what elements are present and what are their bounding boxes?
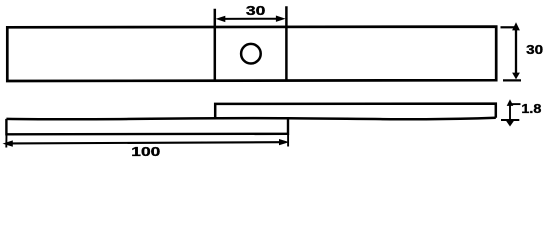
right arrowhead of top 30 dimension [276, 16, 286, 22]
down arrowhead of 1.8 dimension [505, 120, 514, 127]
svg-text:30: 30 [526, 42, 543, 57]
hole (circle) [241, 44, 261, 64]
svg-text:100: 100 [131, 144, 160, 159]
svg-text:1.8: 1.8 [521, 101, 541, 116]
left section divider / extension line [214, 9, 217, 81]
top tick of right 30 dimension [501, 26, 515, 28]
left extension line of 100 dimension [5, 134, 7, 148]
top bar outline (plan view) [7, 27, 496, 81]
top tick of 1.8 dimension [511, 103, 521, 105]
down arrowhead of right 30 dimension [512, 73, 520, 80]
dimension line 30 (right, vertical) [515, 29, 517, 74]
left arrowhead of 100 dimension [3, 140, 13, 146]
lower plate (side view): bottom and sides [6, 118, 288, 134]
dimension line 100 [11, 142, 280, 143]
up arrowhead of 1.8 dimension [507, 99, 514, 106]
bottom tick of right 30 dimension [503, 79, 521, 81]
dimension line 30 (top) [221, 18, 280, 20]
left arrowhead of top 30 dimension [216, 16, 226, 22]
dimension line 1.8 (vertical) [509, 103, 511, 122]
up arrowhead of right 30 dimension [512, 22, 520, 30]
upper plate (side view): top edge [215, 104, 496, 119]
right extension line of 100 dimension [287, 134, 289, 147]
joint seam line (lower plate top edge / upper plate bottom edge) [6, 118, 495, 120]
right section divider / extension line [285, 6, 288, 80]
bottom tick of 1.8 dimension [501, 119, 519, 121]
svg-text:30: 30 [246, 3, 266, 18]
right arrowhead of 100 dimension [279, 139, 289, 145]
